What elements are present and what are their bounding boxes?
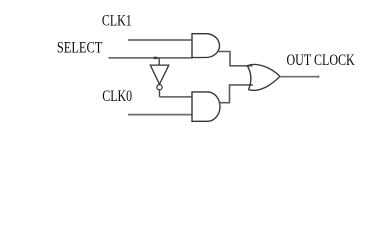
inverter U1 bubble	[157, 85, 162, 90]
inverter U1 triangle	[150, 65, 169, 84]
wire OUT CLOCK output	[280, 76, 320, 78]
wire CLK0 input	[128, 114, 193, 116]
wire CLK1 input	[128, 39, 192, 41]
node output end	[317, 76, 319, 78]
node junction on SELECT	[154, 57, 158, 59]
wire inverter output down	[159, 90, 161, 97]
or-gate U4	[247, 64, 280, 90]
svg-text:SELECT: SELECT	[57, 40, 103, 57]
and-gate U2 top	[192, 34, 219, 58]
wire inverter output to AND2	[160, 96, 193, 98]
svg-text:CLK0: CLK0	[102, 88, 132, 105]
wire SELECT input	[109, 57, 193, 59]
wire AND top output	[218, 52, 253, 66]
wire SELECT drop to inverter	[158, 58, 160, 65]
wire AND bottom output	[219, 85, 254, 103]
and-gate U3 bottom	[192, 92, 220, 121]
svg-text:OUT CLOCK: OUT CLOCK	[287, 52, 355, 69]
svg-text:CLK1: CLK1	[102, 13, 132, 30]
